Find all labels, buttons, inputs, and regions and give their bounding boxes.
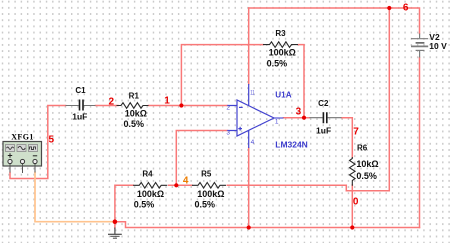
svg-text:R6: R6 (357, 144, 368, 153)
svg-text:7: 7 (353, 127, 359, 138)
svg-text:5: 5 (49, 135, 55, 146)
svg-text:2: 2 (226, 105, 230, 112)
svg-text:4: 4 (183, 175, 189, 186)
svg-text:R4: R4 (142, 170, 153, 179)
svg-text:C1: C1 (75, 86, 86, 95)
svg-text:10 V: 10 V (429, 41, 447, 51)
svg-text:U1A: U1A (275, 91, 292, 100)
svg-text:0.5%: 0.5% (267, 59, 288, 69)
svg-text:XFG1: XFG1 (11, 133, 34, 142)
svg-text:0.5%: 0.5% (124, 119, 145, 129)
svg-text:1: 1 (275, 119, 279, 126)
svg-text:100kΩ: 100kΩ (269, 48, 296, 58)
svg-text:R3: R3 (275, 29, 286, 38)
svg-text:100kΩ: 100kΩ (137, 189, 164, 199)
svg-text:R5: R5 (201, 170, 212, 179)
svg-text:0.5%: 0.5% (194, 200, 215, 210)
svg-text:2: 2 (109, 97, 115, 108)
svg-text:3: 3 (226, 129, 230, 136)
svg-text:LM324N: LM324N (275, 140, 308, 149)
svg-text:1uF: 1uF (316, 125, 331, 135)
svg-text:3: 3 (296, 107, 302, 118)
svg-text:6: 6 (403, 2, 409, 13)
svg-text:11: 11 (250, 90, 255, 97)
svg-text:0: 0 (353, 197, 359, 208)
svg-text:0.5%: 0.5% (356, 171, 377, 181)
svg-text:R1: R1 (129, 91, 140, 100)
svg-text:1uF: 1uF (72, 112, 87, 122)
svg-text:C2: C2 (318, 99, 329, 108)
svg-text:100kΩ: 100kΩ (197, 189, 224, 199)
svg-text:10kΩ: 10kΩ (125, 108, 147, 118)
svg-text:4: 4 (251, 139, 255, 146)
svg-text:10kΩ: 10kΩ (356, 159, 378, 169)
svg-text:0.5%: 0.5% (134, 200, 155, 210)
svg-text:1: 1 (164, 95, 170, 106)
